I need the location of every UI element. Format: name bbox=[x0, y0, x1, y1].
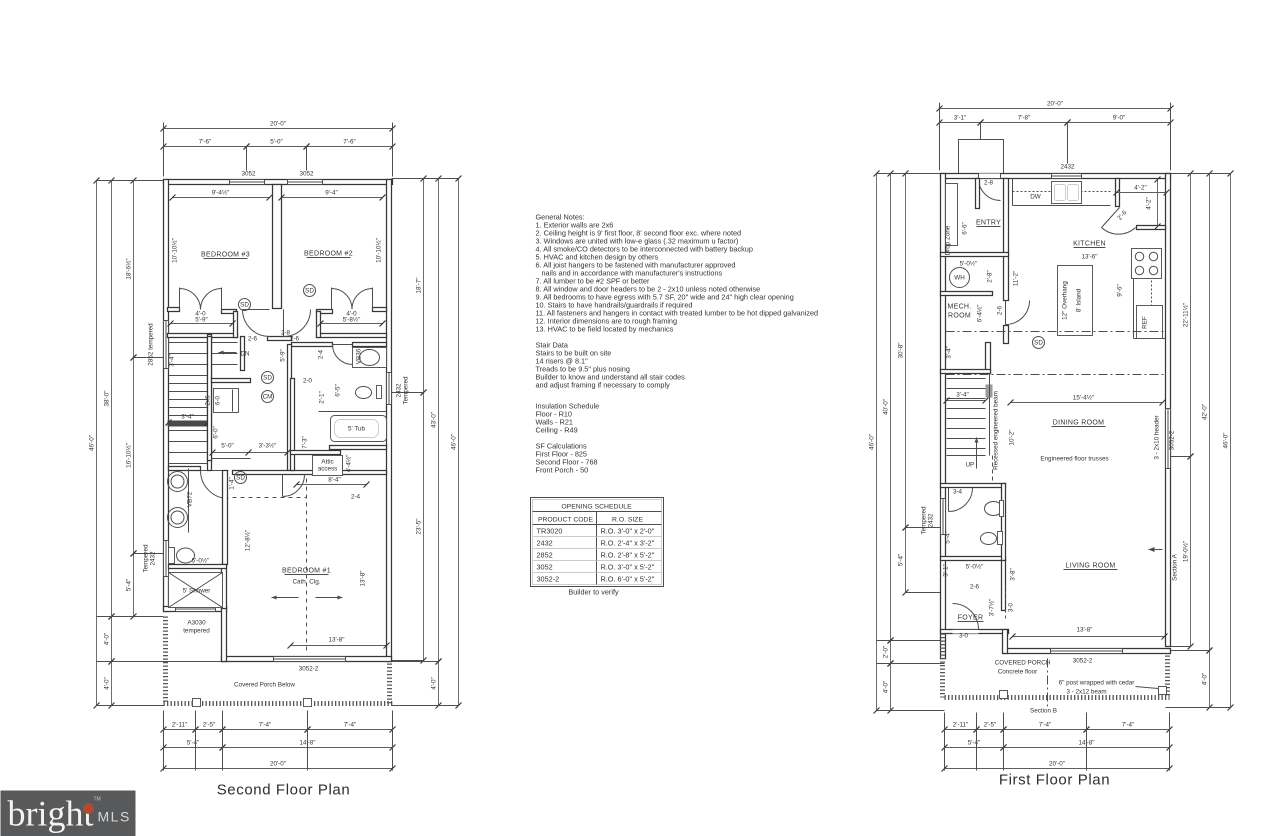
shower X diagonal 1 bbox=[169, 573, 223, 608]
svg-text:Section B: Section B bbox=[1030, 708, 1057, 715]
section line A dashdot bbox=[946, 331, 1166, 333]
svg-text:2x6: 2x6 bbox=[205, 395, 212, 406]
svg-text:2'-1": 2'-1" bbox=[319, 391, 326, 404]
smoke detector bedroom 1 bbox=[235, 472, 247, 484]
powder room south wall bbox=[941, 557, 1006, 561]
svg-text:4'-4½": 4'-4½" bbox=[345, 455, 353, 473]
svg-text:6-0: 6-0 bbox=[215, 395, 222, 405]
svg-text:3'-3½": 3'-3½" bbox=[259, 442, 277, 450]
stove burners bbox=[1135, 252, 1143, 260]
svg-text:9'-4": 9'-4" bbox=[325, 190, 338, 197]
svg-text:40'-0": 40'-0" bbox=[883, 399, 890, 415]
svg-text:3'-4": 3'-4" bbox=[181, 414, 194, 421]
extension lines top bbox=[163, 123, 165, 177]
west wall of bedroom 1 lower bbox=[222, 607, 227, 662]
extension lines first floor right bbox=[1171, 173, 1231, 175]
svg-text:2'-8": 2'-8" bbox=[987, 270, 994, 283]
svg-text:13'-6": 13'-6" bbox=[1081, 254, 1097, 261]
window 3052-2 bottom bbox=[274, 657, 346, 662]
bath east wall bbox=[223, 471, 228, 565]
window 2432 tempered left wall lower bbox=[164, 541, 169, 577]
wh room wall bbox=[941, 292, 993, 296]
bedroom 3 closet front wall right stub bbox=[222, 310, 237, 314]
bedroom1 west wall upper bbox=[222, 565, 227, 609]
stair hall wall upper bbox=[986, 343, 991, 374]
right exterior wall ff bbox=[1166, 174, 1171, 647]
logo box bbox=[1, 791, 136, 836]
svg-text:4'-0": 4'-0" bbox=[104, 633, 111, 646]
entry door gap in top wall bbox=[979, 174, 1001, 179]
svg-text:5'-4": 5'-4" bbox=[945, 531, 952, 544]
dim 7'-4" bottom right bbox=[308, 729, 393, 731]
svg-text:46'-0": 46'-0" bbox=[451, 434, 458, 450]
svg-text:DINING ROOM: DINING ROOM bbox=[1053, 420, 1105, 427]
svg-text:4'-0": 4'-0" bbox=[104, 677, 111, 690]
pantry wall horizontal bbox=[1137, 226, 1166, 230]
dim 7'-6" top right bbox=[307, 146, 393, 148]
bedroom divider wall bbox=[273, 185, 282, 309]
svg-text:20'-0": 20'-0" bbox=[1049, 761, 1065, 768]
extension lines bottom bbox=[163, 711, 165, 771]
hall dim line bbox=[213, 452, 288, 454]
bedroom 2 closet front wall left stub bbox=[317, 310, 333, 314]
svg-text:4'-0": 4'-0" bbox=[431, 677, 438, 690]
closet dim line bed2 bbox=[321, 323, 383, 325]
svg-text:16'-10½": 16'-10½" bbox=[125, 443, 133, 468]
bath west wall bbox=[288, 345, 292, 471]
closet dim line bed3 bbox=[171, 323, 233, 325]
svg-text:CM: CM bbox=[263, 394, 273, 401]
bottom-left wall bath bbox=[164, 607, 227, 612]
window 3052 top right bbox=[288, 180, 323, 185]
svg-text:20'-0": 20'-0" bbox=[270, 761, 286, 768]
stair bottom wall ff bbox=[947, 455, 986, 457]
svg-text:Ceiling - R49: Ceiling - R49 bbox=[536, 426, 578, 435]
window 3052 top left bbox=[230, 180, 265, 185]
svg-text:4'-0": 4'-0" bbox=[1202, 673, 1209, 686]
laundry closet walls bbox=[212, 379, 251, 383]
svg-text:Drop Zone: Drop Zone bbox=[945, 225, 952, 255]
shower stall bbox=[169, 573, 223, 608]
svg-text:SD: SD bbox=[263, 375, 272, 382]
svg-text:20'-0": 20'-0" bbox=[270, 121, 286, 128]
svg-text:5'-9": 5'-9" bbox=[280, 349, 287, 362]
svg-text:Second Floor Plan: Second Floor Plan bbox=[217, 782, 351, 799]
entry stoop outline bbox=[959, 140, 1004, 174]
window 3052-2 bottom ff bbox=[1051, 649, 1123, 654]
svg-text:VB72: VB72 bbox=[187, 491, 194, 507]
svg-text:TR3020: TR3020 bbox=[537, 527, 563, 536]
dim 5'-4 bottom ff bbox=[945, 747, 1004, 749]
bottom wall living room bbox=[1004, 649, 1171, 654]
svg-text:R.O. 2'-8" x 5'-2": R.O. 2'-8" x 5'-2" bbox=[601, 551, 655, 560]
svg-text:BEDROOM #1: BEDROOM #1 bbox=[282, 568, 331, 575]
svg-text:bright: bright bbox=[8, 794, 94, 834]
dim 43'-0" right bbox=[438, 179, 440, 662]
svg-text:43'-0": 43'-0" bbox=[431, 412, 438, 428]
toilet lower bath bbox=[177, 548, 195, 563]
hall south wall / bedroom1 north wall bbox=[233, 471, 387, 475]
svg-text:A3030: A3030 bbox=[187, 620, 206, 627]
dim 20'-0 bottom ff bbox=[945, 768, 1170, 770]
svg-text:5'-4": 5'-4" bbox=[187, 740, 200, 747]
svg-text:2'-0": 2'-0" bbox=[883, 646, 890, 659]
dim 2'-5" bottom bbox=[196, 729, 223, 731]
svg-text:8' Island: 8' Island bbox=[1076, 288, 1083, 312]
bedroom 2 closet bifold doors bbox=[332, 289, 353, 310]
svg-text:3-0: 3-0 bbox=[1008, 602, 1015, 612]
dim 2'-11 bottom ff bbox=[945, 729, 977, 731]
bedroom 2 closet back wall bbox=[317, 334, 387, 338]
svg-text:2-8: 2-8 bbox=[281, 330, 291, 337]
svg-text:SD: SD bbox=[305, 288, 314, 295]
svg-text:2'-5": 2'-5" bbox=[203, 722, 216, 729]
svg-text:7'-6": 7'-6" bbox=[199, 139, 212, 146]
svg-text:2852 tempered: 2852 tempered bbox=[148, 323, 155, 366]
svg-text:4'-2": 4'-2" bbox=[1146, 197, 1153, 210]
pantry wall vertical bbox=[1116, 179, 1120, 207]
svg-text:5'-4": 5'-4" bbox=[968, 740, 981, 747]
svg-text:R.O. SIZE: R.O. SIZE bbox=[612, 517, 643, 524]
svg-text:42'-0": 42'-0" bbox=[1202, 404, 1209, 420]
porch post left bbox=[193, 699, 201, 707]
svg-text:Recessed engineered beam: Recessed engineered beam bbox=[993, 391, 1000, 470]
svg-text:DN: DN bbox=[241, 351, 251, 358]
powder room east wall bbox=[1002, 484, 1006, 561]
table column divider bbox=[596, 512, 598, 585]
interior dim line bedroom3 bbox=[173, 197, 270, 199]
logo orange dot bbox=[83, 803, 94, 814]
svg-text:10'-10½": 10'-10½" bbox=[171, 238, 179, 263]
table line under header bbox=[533, 524, 662, 526]
dim 7'-4 bottom ff 2 bbox=[1087, 729, 1170, 731]
svg-text:19'-0½": 19'-0½" bbox=[1182, 541, 1190, 562]
section line B dashdot bbox=[946, 374, 1166, 376]
foyer east wall bbox=[1002, 561, 1006, 611]
dim 20'-0 top first floor bbox=[940, 108, 1171, 110]
stair treads upper bbox=[169, 342, 238, 344]
svg-text:38'-0": 38'-0" bbox=[104, 390, 111, 406]
porch hatch left edge bbox=[163, 617, 168, 704]
svg-text:FOYER: FOYER bbox=[958, 615, 984, 622]
svg-text:Covered Porch Below: Covered Porch Below bbox=[234, 682, 295, 689]
svg-text:2432: 2432 bbox=[396, 383, 403, 398]
section B dashdot vertical bbox=[1047, 659, 1049, 707]
kitchen counter edge bbox=[1013, 205, 1111, 207]
svg-text:R.O. 2'-4" x 3'-2": R.O. 2'-4" x 3'-2" bbox=[601, 539, 655, 548]
dim 19'-0.5 bbox=[1190, 457, 1192, 647]
svg-text:R.O. 3'-0" x 5'-2": R.O. 3'-0" x 5'-2" bbox=[601, 563, 655, 572]
shower X diagonal 2 bbox=[169, 573, 223, 608]
pantry door arc bbox=[1102, 228, 1136, 235]
svg-text:13. HVAC to be field located b: 13. HVAC to be field located by mechanic… bbox=[536, 325, 674, 334]
svg-text:Tempered: Tempered bbox=[403, 376, 410, 404]
bedroom1 ridge dashed line bbox=[306, 479, 308, 653]
svg-text:VB36: VB36 bbox=[356, 348, 363, 364]
svg-text:46'-0": 46'-0" bbox=[869, 434, 876, 450]
svg-text:13'-8": 13'-8" bbox=[1076, 627, 1092, 634]
fridge REF box bbox=[1137, 306, 1163, 339]
stair wall laundry side bbox=[208, 337, 212, 461]
bath north wall segment bbox=[169, 467, 201, 471]
dim 5'-4" left bbox=[133, 554, 135, 617]
bath south wall bbox=[330, 446, 387, 450]
svg-text:COVERED PORCH: COVERED PORCH bbox=[995, 660, 1051, 667]
foyer porch corner wall bbox=[1003, 630, 1008, 654]
left exterior wall ff bbox=[941, 174, 946, 659]
svg-text:3052-2: 3052-2 bbox=[1073, 658, 1093, 665]
stair treads ff bbox=[947, 378, 986, 380]
svg-text:R.O. 3'-0" x 2'-0": R.O. 3'-0" x 2'-0" bbox=[601, 527, 655, 536]
svg-text:6'-5": 6'-5" bbox=[335, 384, 342, 397]
dim 38'-0" left bbox=[111, 181, 113, 617]
svg-text:22'-11½": 22'-11½" bbox=[1182, 303, 1190, 327]
svg-text:OPENING SCHEDULE: OPENING SCHEDULE bbox=[561, 504, 632, 511]
svg-text:2-6: 2-6 bbox=[970, 584, 980, 591]
laundry inner line bbox=[212, 458, 251, 460]
bedroom 3 door arc bbox=[243, 310, 270, 337]
porch hatch right edge bbox=[387, 664, 392, 704]
svg-text:DW: DW bbox=[1030, 194, 1041, 201]
svg-text:6'-0": 6'-0" bbox=[213, 426, 220, 439]
bedroom 2 closet front wall right stub bbox=[373, 308, 387, 312]
kitchen sink bbox=[1052, 182, 1082, 204]
carbon monoxide detector hall bbox=[262, 391, 274, 403]
kitchen counter dashed bbox=[1013, 191, 1111, 193]
toilet upper bath bbox=[356, 387, 372, 399]
range counter right wall bbox=[1133, 249, 1135, 339]
svg-text:Attic: Attic bbox=[321, 459, 333, 466]
svg-text:2'-11": 2'-11" bbox=[172, 722, 188, 729]
pantry door leaf diagonal bbox=[1102, 208, 1120, 228]
svg-text:3052: 3052 bbox=[241, 171, 256, 178]
dim 20'-0" bottom bbox=[164, 768, 393, 770]
top exterior wall bbox=[164, 180, 393, 185]
svg-text:Section A: Section A bbox=[1172, 553, 1179, 580]
powder sink oval bbox=[985, 502, 1003, 516]
VB72 sink circle 1 bbox=[168, 472, 188, 492]
window tempered 2432 left wall ff bbox=[941, 499, 946, 535]
interior dim 13'-8 bedroom1 bbox=[291, 645, 387, 647]
dim 5'-4 bbox=[905, 528, 907, 593]
svg-text:and adjust framing if necessar: and adjust framing if necessary to compl… bbox=[536, 381, 671, 390]
dim 7'-4 bottom ff bbox=[1004, 729, 1087, 731]
extension lines top first floor bbox=[939, 103, 941, 171]
dim 2'-0 bbox=[890, 641, 892, 664]
svg-text:Cath. Clg.: Cath. Clg. bbox=[293, 579, 321, 586]
section A arrow bbox=[1149, 549, 1163, 551]
left exterior wall bbox=[164, 180, 169, 612]
interior dim line bedroom2 bbox=[282, 197, 383, 199]
VB36 sink oval bbox=[360, 350, 380, 366]
svg-text:2'-5": 2'-5" bbox=[984, 722, 997, 729]
mech room bottom wall bbox=[941, 370, 991, 374]
hall wall below doors bbox=[268, 337, 292, 341]
svg-text:10'-10½": 10'-10½" bbox=[375, 238, 383, 263]
svg-text:BEDROOM #2: BEDROOM #2 bbox=[304, 251, 353, 258]
bottom wall bedroom 1 bbox=[222, 657, 392, 662]
dim 46'-0" left outer bbox=[96, 181, 98, 706]
svg-text:Builder to verify: Builder to verify bbox=[568, 588, 619, 597]
svg-text:11'-2": 11'-2" bbox=[1013, 271, 1020, 287]
svg-text:Tempered: Tempered bbox=[143, 544, 150, 572]
svg-text:3052-2: 3052-2 bbox=[1169, 430, 1176, 450]
svg-text:3'-4": 3'-4" bbox=[956, 392, 969, 399]
svg-text:2-0: 2-0 bbox=[303, 378, 313, 385]
bedroom 3 closet back wall bbox=[168, 334, 238, 338]
svg-text:13'-8": 13'-8" bbox=[360, 570, 367, 586]
water heater circle WH bbox=[950, 268, 970, 288]
dim 18'-7" right bbox=[423, 179, 425, 393]
dim 42'-0 bbox=[1209, 174, 1211, 651]
bottom wall foyer bbox=[941, 630, 1009, 634]
svg-text:4'-0": 4'-0" bbox=[883, 681, 890, 694]
svg-text:2-6: 2-6 bbox=[290, 336, 300, 343]
svg-text:6'-4½": 6'-4½" bbox=[976, 305, 984, 323]
svg-text:10'-2": 10'-2" bbox=[1009, 429, 1016, 445]
svg-text:13'-8": 13'-8" bbox=[328, 637, 344, 644]
svg-text:First Floor Plan: First Floor Plan bbox=[999, 772, 1110, 789]
svg-text:5'-8½": 5'-8½" bbox=[343, 316, 361, 324]
washer dryer box bbox=[214, 389, 239, 413]
window 2432 bath right wall bbox=[387, 373, 392, 405]
hall wall stair side bbox=[241, 337, 245, 371]
svg-text:SD: SD bbox=[236, 475, 245, 482]
svg-text:9'-0": 9'-0" bbox=[1113, 115, 1126, 122]
smoke detector bedroom 3 bbox=[239, 299, 251, 311]
dim 2'-11" bottom bbox=[164, 729, 196, 731]
svg-text:4'-2": 4'-2" bbox=[1134, 185, 1147, 192]
window A3030 shower wall bbox=[176, 607, 216, 612]
dim 4'-0 right bbox=[1209, 651, 1211, 708]
svg-text:2-6: 2-6 bbox=[248, 336, 258, 343]
dim 7'-6" top bbox=[164, 146, 247, 148]
stair treads lower bbox=[169, 430, 208, 432]
svg-text:18'-6½": 18'-6½" bbox=[125, 258, 133, 279]
dim 46'-0 right outer bbox=[1230, 174, 1232, 708]
top exterior wall ff bbox=[941, 174, 1171, 179]
svg-text:PRODUCT CODE: PRODUCT CODE bbox=[538, 517, 593, 524]
svg-text:5'-4": 5'-4" bbox=[126, 579, 133, 592]
recessed beam dashed line bbox=[992, 456, 994, 491]
porch post mid bbox=[304, 699, 312, 707]
svg-text:6'-6": 6'-6" bbox=[962, 222, 969, 235]
counter dashed right bbox=[1151, 249, 1153, 339]
svg-text:3 - 2x12 beam: 3 - 2x12 beam bbox=[1066, 689, 1106, 696]
bedroom 3 closet bifold doors bbox=[180, 289, 201, 310]
svg-text:SD: SD bbox=[1034, 340, 1043, 347]
svg-text:30'-8": 30'-8" bbox=[898, 342, 905, 358]
vanity VB36 bbox=[353, 348, 387, 368]
svg-text:SD: SD bbox=[240, 302, 249, 309]
svg-text:2432: 2432 bbox=[150, 551, 157, 566]
dim 40'-0 bbox=[890, 174, 892, 641]
bedroom 1 door arc bbox=[283, 475, 305, 497]
svg-text:2-8: 2-8 bbox=[984, 180, 994, 187]
vanity VB72 counter line bbox=[188, 469, 190, 533]
svg-text:3-4: 3-4 bbox=[953, 489, 963, 496]
svg-text:7'-4": 7'-4" bbox=[259, 722, 272, 729]
svg-text:15'-4½": 15'-4½" bbox=[1073, 394, 1094, 402]
svg-text:3052-2: 3052-2 bbox=[299, 666, 319, 673]
table line under title bbox=[533, 511, 662, 513]
svg-text:7'-4": 7'-4" bbox=[1039, 722, 1052, 729]
dim 9'-0 top bbox=[1068, 122, 1171, 124]
svg-text:Front Porch - 50: Front Porch - 50 bbox=[536, 466, 589, 475]
svg-text:5'-0½": 5'-0½" bbox=[966, 563, 984, 571]
attic area wall bbox=[291, 451, 341, 455]
porch post right ff bbox=[1159, 687, 1167, 695]
entry door arc top bbox=[979, 179, 1001, 201]
extension lines bottom ff bbox=[944, 713, 946, 771]
cathedral break dashed line bbox=[233, 497, 307, 499]
svg-text:2'-6: 2'-6 bbox=[1116, 209, 1128, 222]
stair treads mid bbox=[169, 375, 208, 377]
foyer dashes bbox=[1005, 586, 1007, 621]
bedroom 3 closet cheek wall bbox=[234, 312, 238, 338]
svg-text:3-0: 3-0 bbox=[959, 633, 969, 640]
bath tub 5ft bbox=[331, 416, 387, 442]
cathedral ceiling arrow left bbox=[272, 597, 299, 599]
svg-text:tempered: tempered bbox=[183, 628, 210, 635]
svg-text:R.O. 6'-0" x 5'-2": R.O. 6'-0" x 5'-2" bbox=[601, 575, 655, 584]
svg-text:3'-7½": 3'-7½" bbox=[988, 599, 996, 617]
dim 7'-4" bottom bbox=[223, 729, 308, 731]
powder door arc bbox=[949, 488, 973, 512]
svg-text:20'-0": 20'-0" bbox=[1047, 101, 1063, 108]
beam recess gray box bbox=[986, 385, 993, 398]
svg-text:5'-4": 5'-4" bbox=[898, 554, 905, 567]
svg-text:7'-4": 7'-4" bbox=[1122, 722, 1135, 729]
svg-text:access: access bbox=[318, 466, 338, 473]
svg-text:UP: UP bbox=[966, 462, 975, 469]
hall wall / bath wall top right bbox=[353, 343, 387, 347]
svg-text:9'-4½": 9'-4½" bbox=[212, 189, 230, 197]
mech door arc bbox=[1006, 301, 1030, 325]
attic access box bbox=[313, 456, 343, 476]
porch hatch bottom ff bbox=[945, 695, 1170, 700]
svg-text:12'-8½": 12'-8½" bbox=[244, 530, 252, 551]
dim 46'-0" right outer bbox=[458, 179, 460, 706]
dim 14'-8" bottom bbox=[223, 747, 393, 749]
front door arc bbox=[953, 604, 979, 630]
svg-text:5'-9": 5'-9" bbox=[195, 317, 208, 324]
powder room north wall bbox=[941, 484, 1006, 488]
svg-text:5' Tub: 5' Tub bbox=[348, 426, 365, 433]
svg-text:WH: WH bbox=[954, 275, 965, 282]
table outer border bbox=[531, 498, 664, 587]
svg-text:MLS: MLS bbox=[98, 809, 131, 825]
entry closet wall bbox=[1004, 179, 1009, 301]
svg-text:18'-7": 18'-7" bbox=[416, 277, 423, 293]
dim 7'-8 top bbox=[981, 122, 1068, 124]
svg-text:5'-0½": 5'-0½" bbox=[960, 260, 978, 268]
dim 4'-0" left lower bbox=[111, 662, 113, 706]
svg-text:Tempered: Tempered bbox=[921, 506, 928, 534]
svg-text:7'-4": 7'-4" bbox=[344, 722, 357, 729]
dim 4'-0" right bbox=[438, 662, 440, 706]
svg-text:Engineered floor trusses: Engineered floor trusses bbox=[1040, 456, 1108, 463]
wall above shower bbox=[169, 565, 227, 569]
svg-text:12" Overhang: 12" Overhang bbox=[1062, 281, 1069, 320]
dim 18'-6 1/2" left bbox=[133, 181, 135, 358]
dim 23'-5" right bbox=[423, 393, 425, 661]
svg-text:MECH.: MECH. bbox=[947, 304, 971, 311]
svg-text:3'-4": 3'-4" bbox=[169, 354, 176, 367]
entry inner wall bbox=[976, 179, 980, 209]
dim 22'-11.5 bbox=[1190, 174, 1192, 457]
porch post left ff bbox=[1000, 691, 1008, 699]
